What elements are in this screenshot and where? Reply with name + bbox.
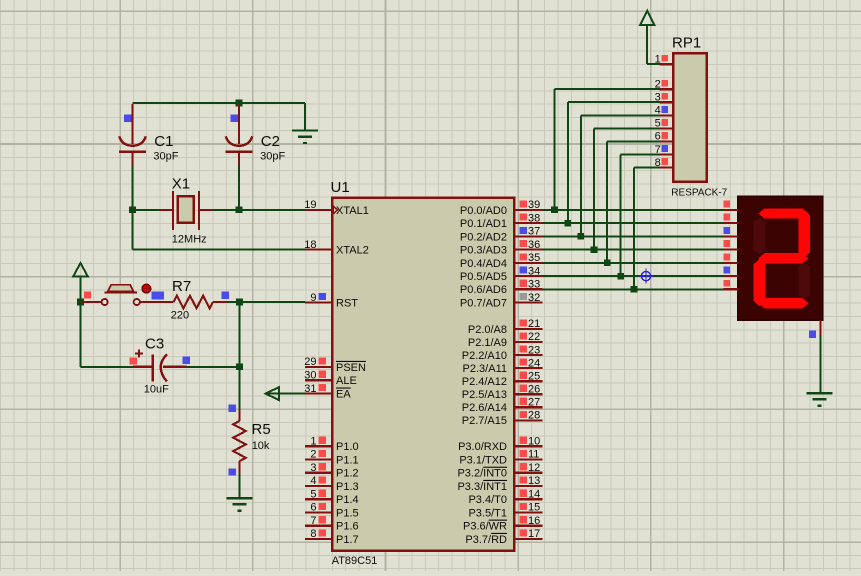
capacitor C2 (226, 104, 286, 210)
node junction P0.5 (617, 273, 624, 280)
svg-text:34: 34 (528, 265, 540, 277)
resistor R7 220 (171, 278, 228, 322)
svg-text:2: 2 (310, 449, 316, 461)
svg-text:18: 18 (304, 239, 316, 251)
svg-text:P3.1/TXD: P3.1/TXD (459, 454, 507, 466)
svg-text:P2.2/A10: P2.2/A10 (462, 350, 507, 362)
wire P0.5 net to display (543, 275, 724, 277)
state square: R5 top (blue) (229, 405, 236, 412)
crystal X1 12MHz (160, 176, 212, 246)
pin 6 (P1.5) left stub (305, 502, 359, 520)
display pin a stub (723, 201, 738, 210)
svg-text:AT89C51: AT89C51 (332, 555, 378, 567)
pin 27 (P2.6/A14) right stub (462, 397, 543, 415)
pin 6 RP1 stub (655, 131, 673, 143)
power terminal (RP1 common VCC) (640, 11, 660, 64)
svg-text:5: 5 (310, 489, 316, 501)
svg-text:10uF: 10uF (144, 383, 169, 395)
svg-text:C2: C2 (261, 133, 280, 150)
svg-text:P3.3/INT1: P3.3/INT1 (457, 481, 507, 493)
pin 29 (PSEN) left stub (304, 356, 366, 374)
svg-text:10: 10 (528, 436, 540, 448)
wire P0.6 net to display (543, 288, 724, 290)
node junction P0.0 (551, 207, 558, 214)
svg-text:30: 30 (304, 370, 316, 382)
pin 2 (P1.1) left stub (305, 449, 359, 467)
pin 1 RP1 stub (655, 53, 673, 65)
display segment f (off) (754, 218, 766, 254)
wire: C1 node to XTAL2 pin (133, 210, 306, 250)
svg-text:RST: RST (336, 298, 358, 310)
op-amp U1 body (AT89C51 microcontroller) (331, 179, 515, 567)
svg-text:R7: R7 (172, 278, 191, 295)
svg-text:P2.6/A14: P2.6/A14 (462, 402, 507, 414)
state square: display common (blue) (809, 331, 816, 338)
svg-text:24: 24 (528, 357, 540, 369)
state square: C3 right (blue) (182, 357, 189, 364)
pin XTAL1 clock chevron (333, 206, 338, 214)
wire P0.1 net to display (543, 222, 724, 224)
svg-text:4: 4 (310, 475, 316, 487)
pin 19 (XTAL1) left stub (304, 199, 369, 217)
ground (oscillator) (292, 103, 318, 143)
svg-text:RP1: RP1 (672, 35, 701, 52)
display common pin to ground (819, 320, 821, 392)
svg-text:3: 3 (310, 462, 316, 474)
wire P0.3 riser to RP1 pin 5 (594, 128, 660, 249)
pin 32 (P0.7/AD7) right stub (460, 292, 543, 310)
pin 8 (P1.7) left stub (305, 528, 359, 546)
display segment a (lit) (758, 208, 808, 218)
pin 18 (XTAL2) left stub (304, 239, 369, 257)
svg-text:R5: R5 (252, 421, 271, 438)
svg-text:P0.4/AD4: P0.4/AD4 (460, 258, 507, 270)
svg-text:P0.5/AD5: P0.5/AD5 (460, 271, 507, 283)
svg-text:RESPACK-7: RESPACK-7 (671, 188, 727, 199)
power terminal (reset rail VCC) (73, 263, 87, 302)
svg-text:P2.5/A13: P2.5/A13 (462, 389, 507, 401)
svg-text:C3: C3 (145, 336, 164, 353)
node junction P0.3 (591, 246, 598, 253)
capacitor C1 (119, 104, 179, 210)
pin 28 (P2.7/A15) right stub (462, 410, 543, 428)
svg-text:36: 36 (528, 239, 540, 251)
svg-text:14: 14 (528, 489, 540, 501)
pin 23 (P2.2/A10) right stub (462, 344, 543, 362)
pin 2 RP1 stub (655, 78, 673, 90)
pin 4 RP1 stub (655, 105, 673, 117)
state square: button right node (blue) (151, 291, 164, 299)
svg-text:1: 1 (655, 53, 661, 65)
state square: R7 right (blue) (221, 291, 229, 299)
display pin b stub (723, 214, 738, 223)
svg-text:7: 7 (310, 515, 316, 527)
svg-text:P3.7/RD: P3.7/RD (465, 534, 507, 546)
wire: RST column down to C3 row (239, 302, 241, 367)
svg-text:P3.5/T1: P3.5/T1 (468, 507, 507, 519)
svg-text:ALE: ALE (336, 375, 357, 387)
resistor R5 10k (233, 409, 270, 473)
svg-text:P1.5: P1.5 (336, 507, 359, 519)
svg-text:XTAL1: XTAL1 (336, 205, 369, 217)
svg-text:XTAL2: XTAL2 (336, 245, 369, 257)
svg-text:P3.4/T0: P3.4/T0 (468, 494, 507, 506)
svg-text:21: 21 (528, 318, 540, 330)
pin 21 (P2.0/A8) right stub (468, 318, 543, 336)
svg-text:28: 28 (528, 410, 540, 422)
pin 3 (P1.2) left stub (305, 462, 359, 480)
wire: C3 to junction (187, 366, 240, 368)
wire P0.3 net to display (543, 249, 724, 251)
svg-text:P3.2/INT0: P3.2/INT0 (457, 468, 507, 480)
pin 13 (P3.3/INT1) right stub (457, 475, 542, 493)
display pin g stub (723, 280, 738, 289)
svg-text:P3.6/WR: P3.6/WR (463, 521, 507, 533)
svg-text:P2.0/A8: P2.0/A8 (468, 324, 507, 336)
svg-text:P0.6/AD6: P0.6/AD6 (460, 284, 507, 296)
svg-text:4: 4 (655, 105, 661, 117)
svg-text:P0.2/AD2: P0.2/AD2 (460, 231, 507, 243)
svg-text:7: 7 (655, 144, 661, 156)
pin 14 (P3.4/T0) right stub (468, 489, 542, 507)
svg-text:8: 8 (655, 157, 661, 169)
pin 12 (P3.2/INT0) right stub (457, 462, 542, 480)
svg-text:37: 37 (528, 226, 540, 238)
pin 16 (P3.6/WR) right stub (463, 515, 543, 533)
svg-text:6: 6 (310, 502, 316, 514)
svg-text:C1: C1 (154, 133, 173, 150)
wire P0.4 riser to RP1 pin 6 (607, 141, 659, 263)
display pin e stub (723, 254, 738, 263)
pin 10 (P3.0/RXD) right stub (458, 436, 542, 454)
svg-text:13: 13 (528, 475, 540, 487)
pin 3 RP1 stub (655, 91, 673, 103)
svg-text:220: 220 (171, 310, 189, 322)
wire: R7 to RST pin (228, 301, 305, 303)
node junction P0.2 (578, 233, 585, 240)
pin 7 (P1.6) left stub (305, 515, 359, 533)
pin 17 (P3.7/RD) right stub (465, 528, 542, 546)
svg-text:P2.1/A9: P2.1/A9 (468, 337, 507, 349)
wire P0.5 riser to RP1 pin 7 (621, 155, 660, 277)
svg-text:12: 12 (528, 462, 540, 474)
svg-text:33: 33 (528, 279, 540, 291)
node: junction button left (77, 299, 84, 306)
display segment c (off) (799, 263, 811, 299)
display segment b (lit) (799, 210, 811, 257)
node: junction C3 right (236, 364, 243, 371)
pin 9 (RST) left stub (305, 292, 358, 310)
svg-text:23: 23 (528, 344, 540, 356)
wire: R5 to ground (239, 473, 241, 498)
svg-text:35: 35 (528, 252, 540, 264)
svg-text:39: 39 (528, 199, 540, 211)
resistor pack RP1 RESPACK-7 body (671, 35, 727, 199)
ground (display common) (807, 393, 833, 406)
svg-text:16: 16 (528, 515, 540, 527)
svg-text:1: 1 (310, 436, 316, 448)
display pin c stub (723, 227, 738, 236)
pin 5 RP1 stub (655, 118, 673, 130)
node: junction X1 right (236, 207, 243, 214)
pin 38 (P0.1/AD1) right stub (460, 212, 543, 230)
svg-text:8: 8 (310, 528, 316, 540)
svg-text:EA: EA (336, 389, 351, 401)
pin 1 (P1.0) left stub (305, 436, 359, 454)
pin 33 (P0.6/AD6) right stub (460, 279, 543, 297)
svg-text:P0.3/AD3: P0.3/AD3 (460, 245, 507, 257)
svg-text:U1: U1 (331, 179, 350, 196)
wire: C1 to X1 (133, 209, 161, 211)
wire: junction down to R5 (239, 367, 241, 409)
svg-text:3: 3 (655, 91, 661, 103)
svg-text:31: 31 (304, 383, 316, 395)
pin 34 (P0.5/AD5) right stub (460, 265, 543, 283)
pin 35 (P0.4/AD4) right stub (460, 252, 543, 270)
display segment e (lit) (754, 259, 766, 306)
svg-text:9: 9 (310, 292, 316, 304)
node: junction C2 top (236, 100, 243, 107)
push button (reset) (81, 284, 174, 305)
svg-text:P2.7/A15: P2.7/A15 (462, 415, 507, 427)
svg-text:27: 27 (528, 397, 540, 409)
svg-text:5: 5 (655, 118, 661, 130)
wire P0.0 riser to RP1 pin 2 (555, 89, 660, 210)
svg-text:P1.7: P1.7 (336, 534, 359, 546)
wire: X1 to XTAL1 pin (213, 209, 305, 211)
7-segment display body (738, 196, 823, 320)
svg-text:22: 22 (528, 331, 540, 343)
svg-text:12MHz: 12MHz (172, 234, 207, 246)
svg-text:38: 38 (528, 212, 540, 224)
node: junction X1 left (129, 207, 136, 214)
svg-text:6: 6 (655, 131, 661, 143)
svg-text:P3.0/RXD: P3.0/RXD (458, 441, 507, 453)
wire P0.6 riser to RP1 pin 8 (634, 168, 660, 290)
origin marker (638, 269, 653, 284)
state square: C3 left (red) (130, 357, 137, 364)
svg-text:17: 17 (528, 528, 540, 540)
pin 8 RP1 stub (655, 157, 673, 169)
pin 36 (P0.3/AD3) right stub (460, 239, 543, 257)
wire: left rail down and to C3 (81, 302, 133, 367)
wire P0.2 riser to RP1 pin 4 (581, 115, 660, 236)
wire P0.2 net to display (543, 235, 724, 237)
pin 11 (P3.1/TXD) right stub (459, 449, 542, 467)
pin 4 (P1.3) left stub (305, 475, 359, 493)
node junction P0.6 (631, 286, 638, 293)
display segment d (lit) (758, 298, 808, 308)
wire P0.0 net to display (543, 209, 724, 211)
pin 5 (P1.4) left stub (305, 489, 359, 507)
svg-text:10k: 10k (252, 440, 270, 452)
node: junction RST column (236, 299, 243, 306)
pin 7 RP1 stub (655, 144, 673, 156)
svg-text:25: 25 (528, 370, 540, 382)
svg-text:15: 15 (528, 502, 540, 514)
display segment g (lit) (758, 253, 808, 263)
node junction P0.1 (565, 220, 572, 227)
wire P0.1 riser to RP1 pin 3 (568, 102, 660, 223)
state square: button left node (red) (84, 292, 91, 299)
pin 26 (P2.5/A13) right stub (462, 383, 543, 401)
display pin d stub (723, 240, 738, 249)
svg-text:P0.1/AD1: P0.1/AD1 (460, 218, 507, 230)
svg-text:X1: X1 (172, 176, 190, 193)
svg-text:P1.2: P1.2 (336, 468, 359, 480)
pin 30 (ALE) left stub (304, 370, 357, 388)
power arrow terminal on EA pin (266, 387, 306, 400)
pin 15 (P3.5/T1) right stub (468, 502, 542, 520)
svg-text:P1.3: P1.3 (336, 481, 359, 493)
svg-text:26: 26 (528, 383, 540, 395)
svg-text:32: 32 (528, 292, 540, 304)
pin 24 (P2.3/A11) right stub (463, 357, 543, 375)
pin 25 (P2.4/A12) right stub (462, 370, 543, 388)
svg-text:P2.3/A11: P2.3/A11 (463, 363, 507, 375)
svg-text:19: 19 (304, 199, 316, 211)
svg-text:29: 29 (304, 356, 316, 368)
state square: R5 bottom (blue) (229, 469, 236, 476)
svg-text:2: 2 (655, 78, 661, 90)
svg-text:P1.6: P1.6 (336, 521, 359, 533)
svg-text:11: 11 (528, 449, 539, 461)
svg-text:30pF: 30pF (260, 150, 285, 162)
ground (reset divider) (227, 498, 253, 511)
capacitor C3 10uF (133, 336, 187, 396)
svg-text:P0.7/AD7: P0.7/AD7 (460, 298, 507, 310)
svg-text:PSEN: PSEN (336, 362, 366, 374)
wire P0.4 net to display (543, 262, 724, 264)
svg-text:P0.0/AD0: P0.0/AD0 (460, 205, 507, 217)
svg-text:30pF: 30pF (153, 150, 178, 162)
node junction P0.4 (604, 260, 611, 267)
wire: C1 top to ground rail (133, 102, 306, 104)
svg-text:P1.0: P1.0 (336, 441, 359, 453)
svg-text:P1.4: P1.4 (336, 494, 359, 506)
pin 37 (P0.2/AD2) right stub (460, 226, 543, 244)
pin 22 (P2.1/A9) right stub (468, 331, 543, 349)
svg-text:P2.4/A12: P2.4/A12 (462, 376, 507, 388)
pin 39 (P0.0/AD0) right stub (460, 199, 543, 217)
display pin f stub (723, 267, 738, 276)
svg-text:P1.1: P1.1 (336, 454, 359, 466)
pin 31 (EA) left stub (304, 383, 351, 401)
